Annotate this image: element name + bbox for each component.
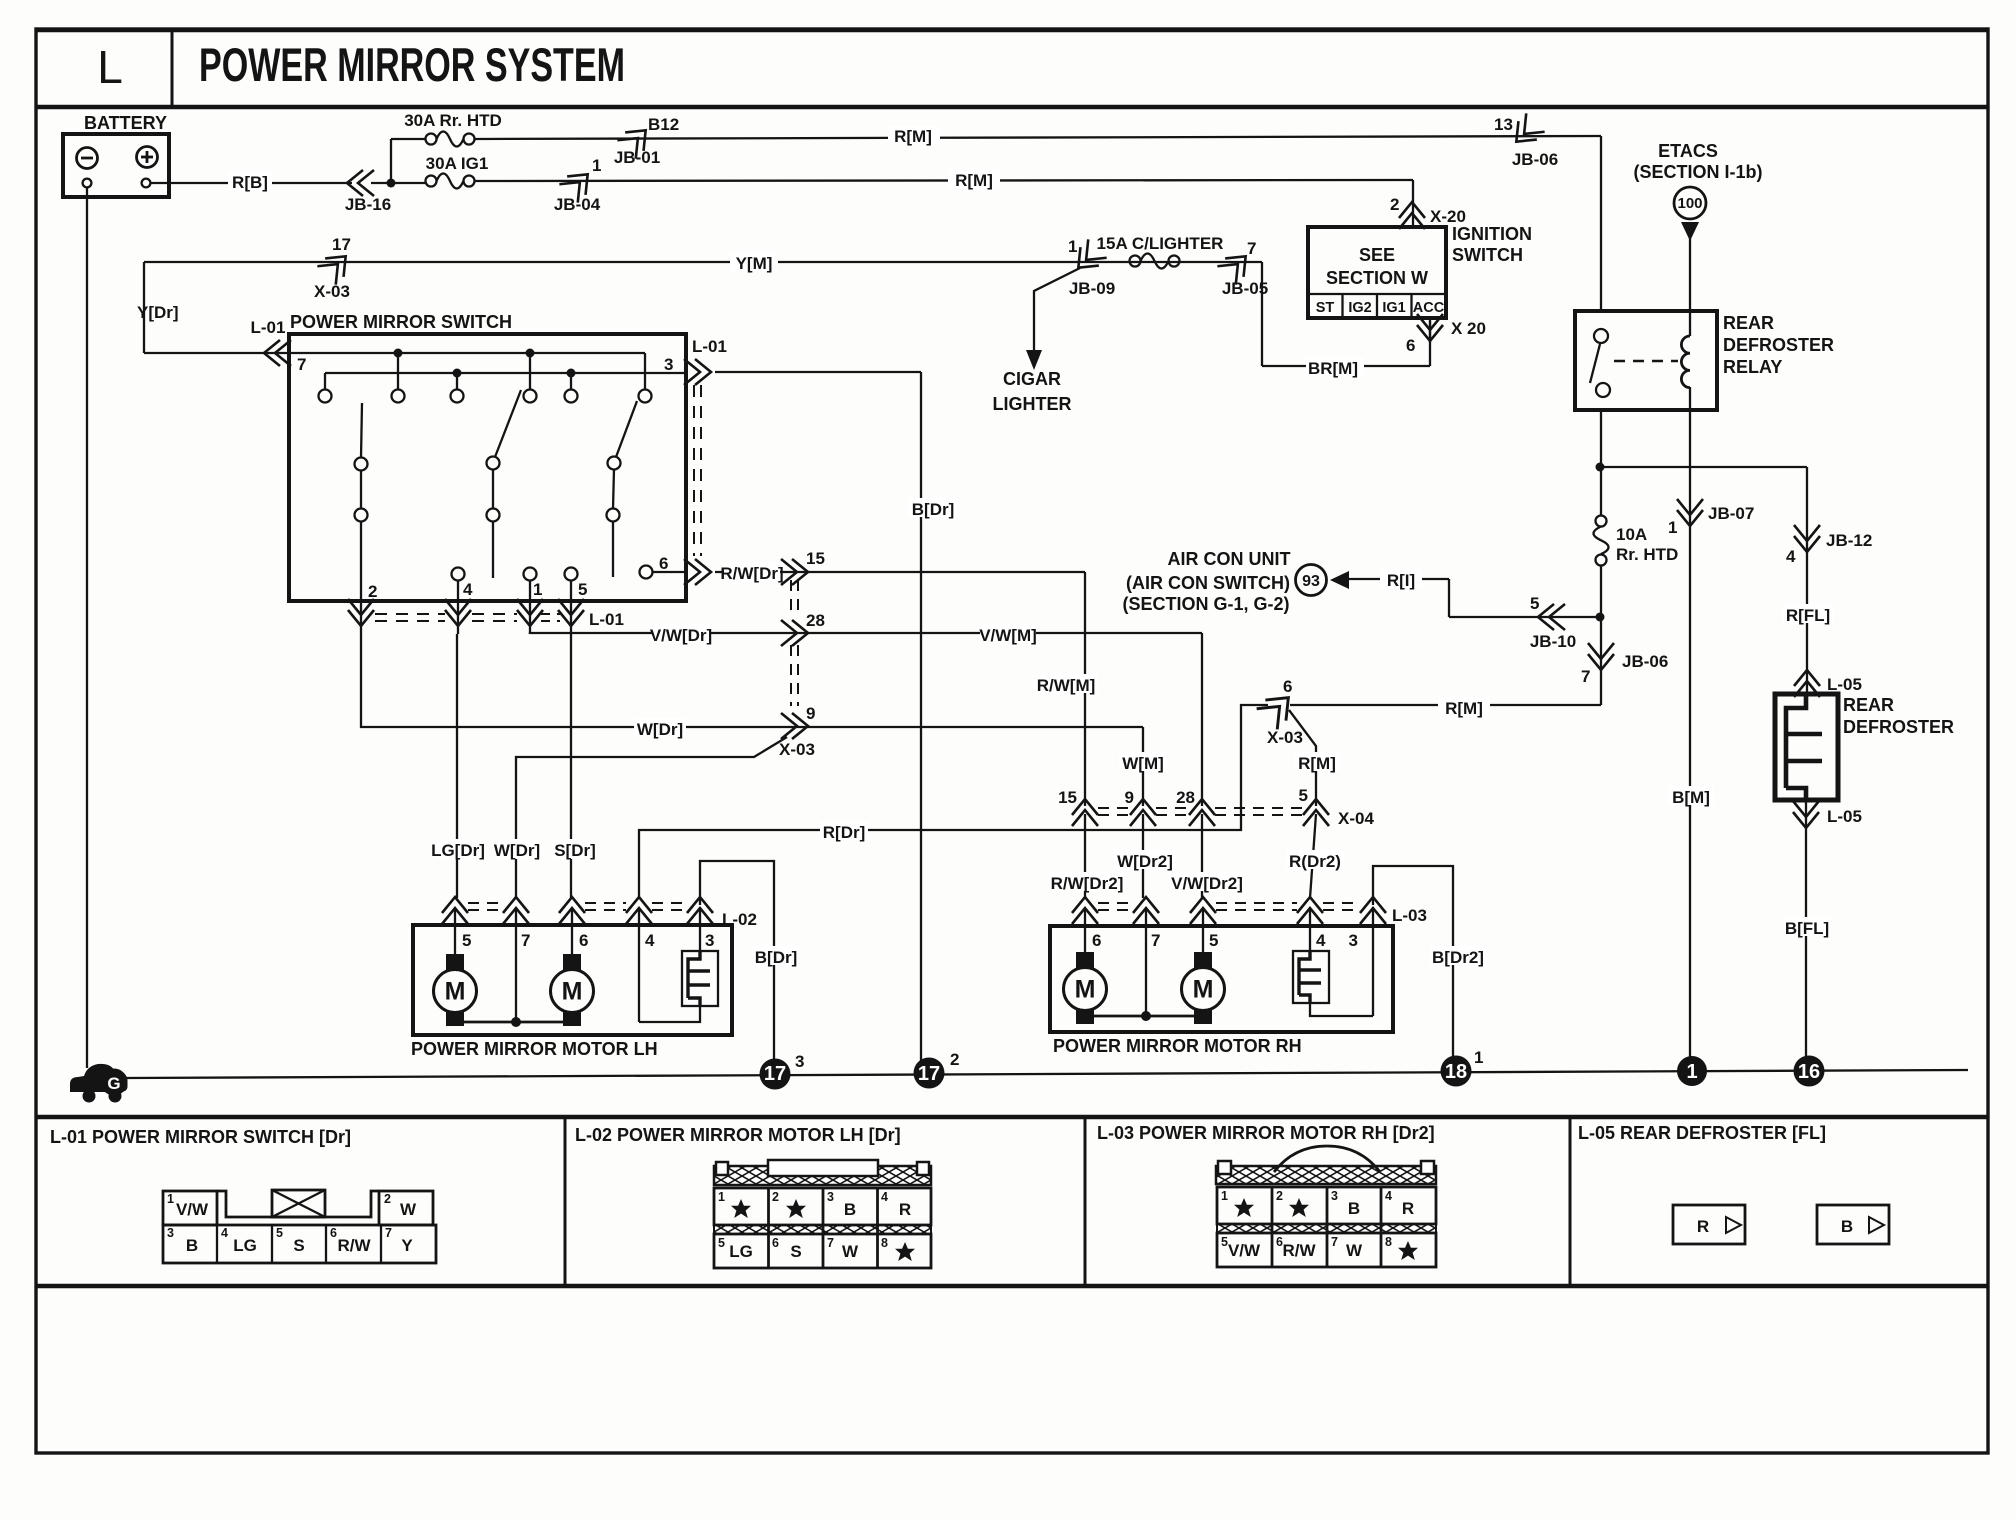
svg-text:POWER MIRROR MOTOR RH: POWER MIRROR MOTOR RH: [1053, 1036, 1302, 1056]
svg-text:L-01: L-01: [251, 318, 286, 337]
svg-text:BR[M]: BR[M]: [1308, 359, 1358, 378]
svg-text:9: 9: [1125, 788, 1134, 807]
svg-text:6: 6: [330, 1226, 337, 1240]
svg-text:AIR CON UNIT: AIR CON UNIT: [1168, 549, 1291, 569]
svg-text:8: 8: [881, 1236, 888, 1250]
svg-text:SWITCH: SWITCH: [1452, 245, 1523, 265]
svg-text:2: 2: [1390, 195, 1399, 214]
svg-text:4: 4: [463, 580, 473, 599]
svg-text:JB-07: JB-07: [1708, 504, 1754, 523]
svg-text:2: 2: [772, 1190, 779, 1204]
svg-text:W[M]: W[M]: [1122, 754, 1164, 773]
svg-text:IG2: IG2: [1348, 300, 1371, 316]
svg-text:3: 3: [705, 931, 714, 950]
svg-text:3: 3: [1349, 931, 1358, 950]
svg-text:7: 7: [385, 1226, 392, 1240]
svg-text:B[Dr]: B[Dr]: [755, 948, 798, 967]
svg-text:1: 1: [1686, 1061, 1697, 1083]
svg-text:4: 4: [645, 931, 655, 950]
svg-text:JB-12: JB-12: [1826, 531, 1872, 550]
svg-text:X-03: X-03: [314, 282, 350, 301]
svg-text:CIGAR: CIGAR: [1003, 369, 1061, 389]
svg-text:JB-10: JB-10: [1530, 632, 1576, 651]
svg-text:B[Dr2]: B[Dr2]: [1432, 948, 1484, 967]
svg-text:7: 7: [297, 355, 306, 374]
svg-text:L-05: L-05: [1827, 807, 1862, 826]
svg-text:6: 6: [1092, 931, 1101, 950]
svg-text:JB-16: JB-16: [345, 195, 391, 214]
svg-text:100: 100: [1677, 195, 1702, 212]
svg-text:REAR: REAR: [1723, 313, 1774, 333]
svg-text:R/W: R/W: [337, 1236, 371, 1255]
svg-text:4: 4: [221, 1226, 228, 1240]
svg-text:R[M]: R[M]: [1298, 754, 1336, 773]
svg-text:1: 1: [1068, 237, 1077, 256]
svg-text:2: 2: [384, 1192, 391, 1206]
svg-text:15A C/LIGHTER: 15A C/LIGHTER: [1097, 234, 1224, 253]
svg-text:17: 17: [918, 1063, 940, 1085]
svg-text:30A Rr. HTD: 30A Rr. HTD: [404, 111, 502, 130]
svg-text:13: 13: [1494, 115, 1513, 134]
svg-text:LG: LG: [233, 1236, 257, 1255]
svg-text:L-03 POWER MIRROR MOTOR RH [Dr: L-03 POWER MIRROR MOTOR RH [Dr2]: [1097, 1123, 1435, 1143]
svg-text:W: W: [842, 1242, 859, 1261]
svg-text:JB-01: JB-01: [614, 148, 660, 167]
svg-text:4: 4: [1385, 1189, 1392, 1203]
svg-text:R/W[Dr]: R/W[Dr]: [720, 564, 783, 583]
svg-text:R: R: [1697, 1217, 1709, 1236]
svg-text:93: 93: [1302, 573, 1320, 590]
svg-text:W[Dr]: W[Dr]: [637, 720, 683, 739]
svg-text:DEFROSTER: DEFROSTER: [1723, 335, 1834, 355]
svg-text:1: 1: [1221, 1189, 1228, 1203]
svg-text:Y: Y: [401, 1236, 413, 1255]
svg-text:X 20: X 20: [1451, 319, 1486, 338]
svg-text:X-03: X-03: [779, 740, 815, 759]
svg-text:3: 3: [167, 1226, 174, 1240]
svg-text:3: 3: [795, 1052, 804, 1071]
svg-text:W[Dr]: W[Dr]: [494, 841, 540, 860]
svg-text:B[M]: B[M]: [1672, 788, 1710, 807]
svg-text:R[M]: R[M]: [955, 171, 993, 190]
svg-text:15: 15: [1058, 788, 1077, 807]
svg-text:SECTION W: SECTION W: [1326, 268, 1428, 288]
svg-text:W[Dr2]: W[Dr2]: [1117, 852, 1173, 871]
svg-text:RELAY: RELAY: [1723, 357, 1782, 377]
svg-text:V/W[M]: V/W[M]: [979, 626, 1037, 645]
svg-text:7: 7: [1247, 239, 1256, 258]
svg-text:6: 6: [579, 931, 588, 950]
svg-text:SEE: SEE: [1359, 245, 1395, 265]
svg-text:POWER MIRROR SYSTEM: POWER MIRROR SYSTEM: [199, 38, 625, 91]
svg-text:L-02 POWER MIRROR MOTOR LH [Dr: L-02 POWER MIRROR MOTOR LH [Dr]: [575, 1125, 901, 1145]
svg-text:7: 7: [1581, 667, 1590, 686]
svg-text:7: 7: [1151, 931, 1160, 950]
svg-text:2: 2: [368, 582, 377, 601]
svg-text:ST: ST: [1316, 300, 1335, 316]
svg-text:1: 1: [533, 580, 542, 599]
svg-text:B: B: [1841, 1217, 1853, 1236]
svg-text:3: 3: [664, 355, 673, 374]
svg-text:28: 28: [806, 611, 825, 630]
svg-text:(SECTION I-1b): (SECTION I-1b): [1634, 162, 1763, 182]
svg-text:5: 5: [276, 1226, 283, 1240]
svg-text:POWER MIRROR SWITCH: POWER MIRROR SWITCH: [290, 312, 512, 332]
svg-text:Y[M]: Y[M]: [736, 254, 773, 273]
svg-text:B[FL]: B[FL]: [1785, 919, 1829, 938]
svg-text:ETACS: ETACS: [1658, 141, 1718, 161]
svg-text:(AIR CON SWITCH): (AIR CON SWITCH): [1126, 573, 1290, 593]
svg-text:5: 5: [462, 931, 471, 950]
svg-text:3: 3: [1331, 1189, 1338, 1203]
svg-text:DEFROSTER: DEFROSTER: [1843, 717, 1954, 737]
svg-text:L-03: L-03: [1392, 906, 1427, 925]
svg-text:R: R: [1402, 1199, 1414, 1218]
svg-text:S[Dr]: S[Dr]: [554, 841, 596, 860]
svg-text:6: 6: [772, 1236, 779, 1250]
svg-text:5: 5: [1209, 931, 1218, 950]
svg-text:1: 1: [718, 1190, 725, 1204]
svg-text:15: 15: [806, 549, 825, 568]
svg-text:W: W: [400, 1200, 417, 1219]
svg-text:R[FL]: R[FL]: [1786, 606, 1830, 625]
svg-text:R[M]: R[M]: [894, 127, 932, 146]
svg-text:S: S: [790, 1242, 801, 1261]
svg-text:28: 28: [1176, 788, 1195, 807]
svg-text:7: 7: [521, 931, 530, 950]
svg-text:4: 4: [881, 1190, 888, 1204]
svg-text:30A IG1: 30A IG1: [426, 154, 489, 173]
svg-text:17: 17: [332, 235, 351, 254]
svg-text:LIGHTER: LIGHTER: [993, 394, 1072, 414]
svg-text:JB-09: JB-09: [1069, 279, 1115, 298]
svg-text:1: 1: [1668, 518, 1677, 537]
svg-text:G: G: [107, 1074, 120, 1093]
svg-text:R[M]: R[M]: [1445, 699, 1483, 718]
svg-text:L-05 REAR DEFROSTER [FL]: L-05 REAR DEFROSTER [FL]: [1578, 1123, 1826, 1143]
svg-text:8: 8: [1385, 1235, 1392, 1249]
svg-text:2: 2: [950, 1050, 959, 1069]
svg-text:R: R: [899, 1200, 911, 1219]
svg-text:5: 5: [1299, 786, 1308, 805]
svg-text:JB-06: JB-06: [1512, 150, 1558, 169]
svg-text:5: 5: [1530, 594, 1539, 613]
svg-text:R(Dr2): R(Dr2): [1289, 852, 1341, 871]
svg-text:JB-04: JB-04: [554, 195, 601, 214]
svg-text:R/W[Dr2]: R/W[Dr2]: [1051, 874, 1124, 893]
svg-text:17: 17: [764, 1063, 786, 1085]
svg-text:6: 6: [1406, 336, 1415, 355]
svg-text:POWER MIRROR MOTOR LH: POWER MIRROR MOTOR LH: [411, 1039, 658, 1059]
svg-text:1: 1: [592, 156, 601, 175]
svg-text:L-01 POWER MIRROR SWITCH [Dr]: L-01 POWER MIRROR SWITCH [Dr]: [50, 1127, 351, 1147]
svg-text:R[I]: R[I]: [1387, 571, 1415, 590]
svg-text:1: 1: [167, 1192, 174, 1206]
svg-text:B: B: [844, 1200, 856, 1219]
svg-text:LG[Dr]: LG[Dr]: [431, 841, 485, 860]
svg-text:V/W[Dr2]: V/W[Dr2]: [1171, 874, 1243, 893]
svg-text:W: W: [1346, 1241, 1363, 1260]
svg-text:L-01: L-01: [692, 337, 727, 356]
svg-text:7: 7: [827, 1236, 834, 1250]
svg-text:5: 5: [578, 580, 587, 599]
svg-text:B12: B12: [648, 115, 679, 134]
svg-text:B[Dr]: B[Dr]: [912, 500, 955, 519]
svg-text:V/W[Dr]: V/W[Dr]: [650, 626, 712, 645]
svg-text:1: 1: [1474, 1048, 1483, 1067]
svg-text:R/W: R/W: [1282, 1241, 1316, 1260]
svg-text:R[B]: R[B]: [232, 173, 268, 192]
svg-text:16: 16: [1798, 1061, 1820, 1083]
svg-text:4: 4: [1786, 547, 1796, 566]
svg-text:3: 3: [827, 1190, 834, 1204]
svg-text:4: 4: [1316, 931, 1326, 950]
svg-text:5: 5: [718, 1236, 725, 1250]
svg-text:10A: 10A: [1616, 525, 1647, 544]
svg-text:LG: LG: [729, 1242, 753, 1261]
svg-text:9: 9: [806, 704, 815, 723]
svg-text:REAR: REAR: [1843, 695, 1894, 715]
svg-text:JB-06: JB-06: [1622, 652, 1668, 671]
svg-text:V/W: V/W: [176, 1200, 209, 1219]
svg-text:L-01: L-01: [589, 610, 624, 629]
svg-text:7: 7: [1331, 1235, 1338, 1249]
svg-text:S: S: [293, 1236, 304, 1255]
svg-text:18: 18: [1445, 1061, 1467, 1083]
svg-text:Rr. HTD: Rr. HTD: [1616, 545, 1678, 564]
svg-text:BATTERY: BATTERY: [84, 113, 167, 133]
svg-text:X-04: X-04: [1338, 809, 1374, 828]
svg-text:R[Dr]: R[Dr]: [823, 823, 866, 842]
svg-text:IGNITION: IGNITION: [1452, 224, 1532, 244]
svg-text:L: L: [97, 41, 123, 93]
svg-text:X-03: X-03: [1267, 728, 1303, 747]
svg-text:L-05: L-05: [1827, 675, 1862, 694]
svg-text:IG1: IG1: [1382, 300, 1405, 316]
svg-text:V/W: V/W: [1228, 1241, 1261, 1260]
svg-text:(SECTION G-1, G-2): (SECTION G-1, G-2): [1122, 594, 1289, 614]
svg-text:B: B: [1348, 1199, 1360, 1218]
svg-text:Y[Dr]: Y[Dr]: [137, 303, 179, 322]
svg-text:6: 6: [659, 554, 668, 573]
svg-text:5: 5: [1221, 1235, 1228, 1249]
svg-text:6: 6: [1283, 677, 1292, 696]
svg-text:B: B: [186, 1236, 198, 1255]
svg-text:R/W[M]: R/W[M]: [1037, 676, 1096, 695]
svg-text:2: 2: [1276, 1189, 1283, 1203]
